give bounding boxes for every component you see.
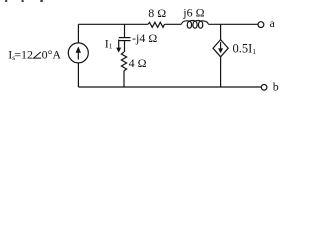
terminal b (open circle) — [261, 85, 267, 91]
cropped text speck top-left 1 — [5, 0, 7, 2]
wire: left branch lower (source down to bottom rail) — [77, 63, 79, 87]
svg-text:A: A — [52, 47, 61, 61]
wire: middle branch top (top rail to capacitor) — [124, 24, 126, 37]
svg-text:0°: 0° — [42, 47, 53, 61]
svg-text:j6 Ω: j6 Ω — [182, 6, 204, 20]
inductor j6 ohm (three curls in top rail) — [182, 20, 209, 28]
wire: top rail from inductor to terminal a — [208, 23, 258, 25]
current arrow I1 (down, beside capacitor) — [118, 40, 120, 49]
resistor 4 ohm (vertical zigzag) — [121, 52, 126, 71]
wire: middle branch bottom (resistor to bottom rail) — [123, 71, 125, 87]
svg-text:4 Ω: 4 Ω — [129, 56, 147, 70]
wire: top rail left segment (node between source and 8-ohm) — [78, 23, 148, 25]
svg-text:8 Ω: 8 Ω — [148, 6, 166, 20]
wire: top rail between resistor and inductor — [165, 23, 182, 25]
wire: bottom rail — [78, 86, 261, 88]
svg-text:-j4 Ω: -j4 Ω — [132, 31, 157, 45]
current source Is (independent, circle with up arrow) — [68, 43, 88, 63]
capacitor -j4 ohm (two plates) — [119, 37, 131, 39]
wire: middle branch between capacitor and 4-ohm resistor — [124, 41, 126, 52]
svg-text:b: b — [273, 80, 279, 94]
svg-text:=12: =12 — [14, 47, 33, 61]
cropped text speck top-left 3 — [40, 0, 42, 2]
resistor 8 ohm (zigzag in top rail) — [148, 22, 165, 27]
wire: right branch top (top rail to dependent source) — [220, 24, 222, 39]
terminal a (open circle) — [258, 22, 264, 28]
cropped text speck top-left 2 — [22, 0, 24, 2]
dependent current source 0.5 I1 (diamond with down arrow) — [213, 40, 228, 57]
wire: left branch upper (top rail down to source) — [77, 24, 79, 43]
svg-text:a: a — [270, 18, 275, 30]
wire: right branch bottom (dependent source to bottom rail) — [220, 57, 222, 87]
